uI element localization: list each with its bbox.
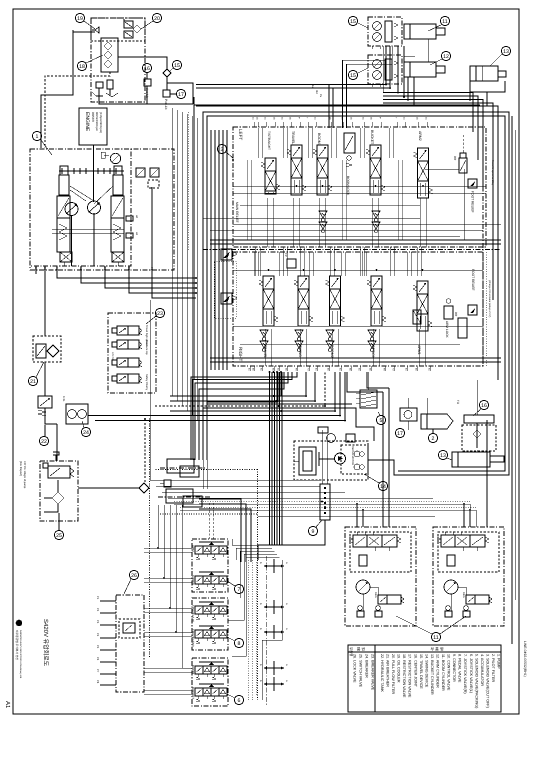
- RIGHT bank box: [233, 252, 483, 366]
- wire tight center bundle: [269, 372, 271, 545]
- svg-text:25. SWITCH VALVE: 25. SWITCH VALVE: [359, 654, 363, 688]
- inter-bank horizontal bundle: [203, 217, 420, 219]
- solenoid valve 2 pressure up: [117, 340, 128, 349]
- svg-text:SWING MOTOR: SWING MOTOR: [351, 446, 354, 465]
- circle label 03: [217, 144, 226, 153]
- rcv BOOM: [195, 666, 203, 674]
- svg-text:16: 16: [144, 66, 150, 72]
- wire motor B drops: [385, 84, 387, 87]
- svg-text:P3: P3: [150, 267, 153, 271]
- long feed line to right assembly: [258, 515, 435, 517]
- foot relief upper: [468, 179, 477, 188]
- circle label 24: [81, 427, 90, 436]
- svg-text:P5: P5: [96, 645, 99, 649]
- svg-text:2: 2: [432, 436, 435, 442]
- svg-text:S420V 유압회로도: S420V 유압회로도: [42, 619, 49, 667]
- pilot gear pump: [110, 153, 120, 163]
- svg-text:18: 18: [79, 64, 85, 70]
- pilot return dotted lines: [247, 560, 249, 700]
- svg-text:Safety Priority: Safety Priority: [145, 374, 148, 391]
- svg-text:REG: REG: [374, 592, 377, 598]
- circle label 17b: [395, 428, 404, 437]
- svg-text:A1: A1: [4, 701, 11, 709]
- wire strip connections: [321, 430, 323, 484]
- pump port stubs: [35, 266, 37, 274]
- wire pump to valve left ports: [196, 130, 211, 278]
- svg-text:Pressure Up: Pressure Up: [145, 340, 148, 355]
- svg-text:5: 5: [380, 418, 383, 424]
- svg-text:B1: B1: [103, 267, 106, 271]
- svg-text:86kW/1900rpm: 86kW/1900rpm: [95, 112, 99, 132]
- port box 16 Acc-Lb: [144, 79, 151, 86]
- circle label 06: [234, 695, 243, 704]
- left bank workport verticals: [267, 198, 269, 247]
- svg-text:A1: A1: [55, 267, 58, 271]
- port box 17 Port-Lb: [163, 90, 170, 97]
- svg-text:품 번: 품 번: [357, 647, 366, 652]
- svg-text:a1: a1: [135, 232, 139, 236]
- svg-text:P6: P6: [96, 657, 99, 661]
- svg-text:Pu: Pu: [319, 94, 322, 98]
- coupler A stub: [164, 480, 171, 487]
- svg-text:ARM: ARM: [191, 545, 195, 552]
- svg-text:BOOM1: BOOM1: [317, 133, 321, 146]
- circle label 20: [152, 13, 161, 22]
- circle label 15: [172, 60, 181, 69]
- svg-text:3. SOLENOID VALVE(CUT OFF): 3. SOLENOID VALVE(CUT OFF): [485, 654, 489, 708]
- swing motor port bar: [318, 452, 320, 466]
- svg-text:8: 8: [238, 641, 241, 647]
- circle label 05: [376, 415, 385, 424]
- drain components under valve: [96, 82, 103, 88]
- svg-text:24. BREAKER: 24. BREAKER: [365, 654, 369, 678]
- right bank relief pairs: [260, 330, 268, 337]
- dotted hose boundary: [149, 419, 151, 659]
- svg-text:13. BUCKET CYLINDER: 13. BUCKET CYLINDER: [430, 654, 434, 695]
- svg-text:22. HYDRAULIC TANK: 22. HYDRAULIC TANK: [380, 654, 384, 693]
- svg-text:C/P Pi1 10kg/c of pump: C/P Pi1 10kg/c of pump: [23, 461, 26, 489]
- junction to cluster links: [144, 547, 192, 549]
- svg-text:BUCKET: BUCKET: [370, 130, 374, 145]
- supply verticals in valve left margin: [210, 130, 212, 370]
- svg-text:23: 23: [157, 311, 163, 317]
- svg-text:SWING: SWING: [191, 575, 195, 586]
- wire left column verticals: [44, 270, 46, 336]
- svg-text:P7: P7: [96, 669, 99, 673]
- pump drive shaft: [59, 170, 124, 172]
- svg-text:4. ACCUMULATOR: 4. ACCUMULATOR: [480, 654, 484, 686]
- svg-text:6: 6: [238, 698, 241, 704]
- circle label 14: [438, 450, 447, 459]
- junction box port stubs: [100, 600, 116, 602]
- main pump assembly box: [30, 149, 131, 266]
- svg-text:Md: Md: [315, 90, 318, 94]
- coupler to cluster verticals: [158, 505, 192, 548]
- top feed line: [194, 104, 480, 106]
- solenoid valve V2: [124, 31, 133, 38]
- swing valve box: [341, 445, 368, 474]
- pump outlet lines: [57, 266, 196, 278]
- wire turning joint links: [476, 380, 478, 415]
- circle label 19: [75, 13, 84, 22]
- lower bank internal verticals: [253, 252, 255, 276]
- svg-text:11. BOOM CYLINDER: 11. BOOM CYLINDER: [441, 654, 445, 691]
- svg-text:FP: FP: [284, 253, 288, 257]
- solenoid valve V1: [124, 21, 133, 28]
- boom lock valve: [344, 133, 355, 153]
- right edge long verticals: [511, 116, 513, 644]
- svg-text:P3: P3: [96, 620, 99, 624]
- joystick valve left cluster: [192, 539, 228, 592]
- circle label 02: [428, 433, 437, 442]
- case drain port boxes: [126, 216, 133, 221]
- check diamond b: [104, 51, 112, 59]
- rcv ARM: [195, 546, 203, 554]
- svg-text:19. OIL COOLER: 19. OIL COOLER: [397, 654, 401, 683]
- svg-text:7. JOYSTICK VALVE(R): 7. JOYSTICK VALVE(R): [463, 654, 467, 694]
- spool OPTION: [371, 276, 382, 289]
- svg-text:P1: P1: [96, 596, 99, 600]
- wire swing group links: [258, 421, 294, 451]
- pump system outer box: [30, 149, 174, 270]
- svg-text:15. TRAVEL DEVICE: 15. TRAVEL DEVICE: [419, 654, 423, 689]
- circle label 07: [234, 584, 243, 593]
- svg-text:T/J: T/J: [456, 400, 460, 405]
- main relief valve symbol upper: [221, 249, 232, 260]
- svg-text:21. AIR BREATHER: 21. AIR BREATHER: [386, 654, 390, 687]
- solenoid valve 1 travel high speed: [117, 326, 128, 335]
- circle label 01: [32, 131, 41, 140]
- svg-text:25: 25: [56, 533, 62, 539]
- upper bank internal verticals: [257, 128, 259, 158]
- left bank port ticks: [253, 122, 255, 127]
- wire valve top pilot drops: [328, 85, 330, 129]
- wire check stack links: [367, 372, 369, 390]
- boom safety assembly right: [433, 527, 504, 626]
- svg-text:17. RESTRICTION VALVE: 17. RESTRICTION VALVE: [408, 654, 412, 698]
- svg-text:부품명: 부품명: [349, 647, 353, 656]
- wire assemblies top drops: [382, 392, 384, 527]
- right bank inner verticals: [249, 366, 251, 371]
- circle label 13: [501, 46, 510, 55]
- wire solenoid H bundle: [170, 372, 306, 396]
- long work verticals upper: [246, 160, 248, 240]
- wire coupler right solid bundle: [199, 499, 241, 562]
- solenoid valve block box: [108, 313, 156, 393]
- svg-text:5. SOLENOID VALVE(PACKING): 5. SOLENOID VALVE(PACKING): [474, 654, 478, 708]
- main relief valve symbol lower: [221, 293, 232, 304]
- right bank workport verticals: [265, 329, 267, 366]
- regulator crossover lines: [52, 228, 124, 230]
- turning joint: [464, 415, 494, 423]
- rcv TRAVEL-RH: [195, 630, 203, 638]
- svg-text:C/V Pi1: C/V Pi1: [111, 352, 114, 361]
- circle label 22: [39, 436, 48, 445]
- svg-text:1: 1: [36, 134, 39, 140]
- junction diamond: [139, 483, 149, 493]
- svg-text:T/STRAIGHT: T/STRAIGHT: [267, 131, 271, 150]
- circle label 23: [155, 308, 164, 317]
- circle label 16: [142, 63, 151, 72]
- svg-text:24: 24: [83, 430, 89, 436]
- pilot drain line left: [193, 97, 195, 380]
- relief dotted enclosure: [214, 261, 236, 318]
- svg-text:16: 16: [481, 403, 487, 409]
- travel motor A housing: [404, 24, 436, 39]
- relief valve pair: [136, 168, 145, 177]
- svg-text:P2: P2: [96, 608, 99, 612]
- quick coupler B: [166, 489, 193, 503]
- FP pump symbol: [287, 259, 296, 268]
- svg-text:1. PUMP: 1. PUMP: [497, 654, 501, 669]
- pilot shut-off valve group box: [91, 18, 145, 102]
- svg-text:2. PILOT FILTER: 2. PILOT FILTER: [491, 654, 495, 682]
- center joint cylinder: [452, 452, 490, 467]
- svg-text:TRAVEL: TRAVEL: [291, 131, 295, 144]
- lock valve inside junction box: [119, 619, 140, 638]
- svg-text:DAEWOO HEAVY INDUSTRIES & Mach: DAEWOO HEAVY INDUSTRIES & Machinery Ltd.: [19, 630, 22, 679]
- svg-text:15: 15: [350, 19, 356, 25]
- svg-text:3: 3: [221, 147, 224, 153]
- arm1 compensator: [413, 310, 421, 324]
- solenoid valve 4 safety priority: [117, 374, 128, 383]
- main pump P2: [88, 201, 101, 214]
- svg-text:LEFT: LEFT: [238, 129, 243, 140]
- svg-text:A2: A2: [79, 267, 82, 271]
- left bank gallery lines: [233, 185, 486, 187]
- svg-text:(For Export): (For Export): [19, 461, 23, 476]
- rcv BUCKET: [195, 688, 203, 696]
- connector strip 09: [320, 484, 330, 520]
- right bank gallery lines: [233, 269, 483, 271]
- boom1 relief pair: [319, 211, 327, 218]
- svg-text:BOOM: BOOM: [191, 665, 195, 675]
- check diamond a: [104, 42, 112, 50]
- DR valve bottom: [458, 318, 467, 338]
- svg-text:P4: P4: [96, 633, 99, 637]
- circle label 08: [234, 638, 243, 647]
- svg-text:TRAVEL(LH): TRAVEL(LH): [191, 605, 195, 622]
- rcv SWING: [195, 576, 203, 584]
- svg-text:P8: P8: [96, 680, 99, 684]
- svg-text:6. JOYSTICK VALVE(L): 6. JOYSTICK VALVE(L): [469, 654, 473, 693]
- circle label 11: [441, 51, 450, 60]
- spool TRAVEL-R: [263, 276, 274, 289]
- wire pump bundle verticals down: [171, 108, 173, 396]
- svg-text:9. CONNECTOR: 9. CONNECTOR: [452, 654, 456, 682]
- circle label 10: [348, 70, 357, 79]
- svg-text:18. RESTRICTION VALVE: 18. RESTRICTION VALVE: [402, 654, 406, 698]
- travel motor B: [368, 55, 402, 84]
- check valve diamond D1: [133, 25, 141, 33]
- LEFT bank box: [233, 127, 486, 247]
- svg-text:MAIN RELIEF: MAIN RELIEF: [235, 202, 239, 223]
- svg-text:11: 11: [442, 19, 447, 25]
- svg-text:16. CENTER JOINT: 16. CENTER JOINT: [413, 654, 417, 688]
- circle label 25: [54, 530, 63, 539]
- svg-text:11: 11: [433, 635, 438, 641]
- DR valve right: [460, 153, 466, 158]
- quick coupler A: [167, 459, 194, 473]
- junction dots: [195, 277, 197, 279]
- svg-text:REG: REG: [462, 592, 465, 598]
- circle label 09: [348, 16, 357, 25]
- wire diamond riser: [144, 419, 146, 483]
- svg-text:20. FULL FLOW FILTER: 20. FULL FLOW FILTER: [391, 654, 395, 694]
- travel motor B housing: [404, 62, 436, 77]
- svg-text:ARM LOCK: ARM LOCK: [445, 321, 449, 339]
- wire center H bundle: [150, 479, 320, 481]
- legend table: [348, 645, 501, 712]
- check valve diamond 15: [163, 69, 171, 77]
- svg-text:DB58TI: DB58TI: [91, 112, 95, 122]
- accumulator pair: [66, 404, 88, 424]
- svg-text:Dr: Dr: [34, 267, 37, 270]
- svg-text:20: 20: [154, 16, 160, 22]
- wire top horizontal bundle: [196, 84, 386, 86]
- pilot line filter: [421, 414, 453, 429]
- inter-bank crossing verticals: [254, 247, 256, 276]
- dozer cylinder: [470, 66, 498, 81]
- spool SWING: [298, 276, 309, 289]
- svg-text:Port-Lb: Port-Lb: [164, 99, 168, 110]
- svg-text:13: 13: [503, 49, 509, 55]
- spool BOOM2: [330, 276, 341, 289]
- svg-text:13: 13: [440, 453, 446, 459]
- accumulator small: [400, 408, 417, 421]
- port cross symbols: [264, 565, 284, 567]
- travel pedal cluster: [192, 598, 228, 650]
- svg-text:17: 17: [178, 92, 184, 98]
- wire group to pump box: [45, 72, 110, 148]
- svg-text:부 품 명: 부 품 명: [430, 647, 444, 652]
- svg-text:0.3L: 0.3L: [62, 396, 66, 402]
- swing brake cylinder: [299, 447, 316, 475]
- wire dozer cylinder drops: [469, 92, 471, 101]
- circle label 09b: [308, 526, 317, 535]
- svg-text:Travel hi-speed at 35kg: Travel hi-speed at 35kg: [491, 160, 494, 186]
- svg-text:9: 9: [312, 529, 315, 535]
- oil cooler motor small: [318, 427, 328, 433]
- pilot junction box 26: [116, 595, 144, 692]
- engine shaft: [93, 145, 95, 202]
- svg-text:ARM2: ARM2: [418, 131, 422, 141]
- pump internal drops: [71, 215, 73, 266]
- check valve manifold 05: [360, 390, 377, 408]
- gauge symbol: [95, 27, 99, 33]
- svg-text:RIGHT: RIGHT: [238, 347, 243, 361]
- svg-text:TRAVEL(RH): TRAVEL(RH): [191, 629, 195, 647]
- svg-text:B2: B2: [127, 267, 130, 271]
- swing motor: [335, 453, 346, 464]
- dash-dot hose line bottom: [265, 556, 267, 706]
- boom safety assembly left: [345, 527, 416, 626]
- wire valve bottom left sweep: [191, 372, 297, 460]
- circle label 26: [129, 570, 138, 579]
- circle label 12: [440, 16, 449, 25]
- svg-text:대우중공업 주식회사 인천: 대우중공업 주식회사 인천: [15, 630, 19, 660]
- svg-text:B3: B3: [43, 267, 46, 271]
- svg-text:26: 26: [131, 573, 137, 579]
- svg-text:12: 12: [443, 54, 449, 60]
- main control valve outer box: [203, 112, 509, 475]
- circle label 15b: [479, 400, 488, 409]
- regulator left stack: [60, 166, 68, 175]
- pilot valve body: [101, 38, 118, 72]
- svg-text:10. CONTROL VALVE: 10. CONTROL VALVE: [447, 654, 451, 691]
- svg-text:26. LOCK VALVE: 26. LOCK VALVE: [353, 654, 357, 683]
- bucket relief pair: [372, 211, 380, 218]
- svg-text:14. SWING DEVICE: 14. SWING DEVICE: [424, 654, 428, 688]
- circle label 18: [77, 61, 86, 70]
- spool ARM1: [417, 281, 428, 294]
- circle label 12b: [431, 632, 440, 641]
- svg-text:22: 22: [41, 439, 47, 445]
- return filter unit: [33, 336, 61, 362]
- company logo: [16, 620, 23, 627]
- check diamond c: [104, 60, 112, 68]
- svg-text:LINE-0492-00532(RH1): LINE-0492-00532(RH1): [523, 641, 527, 677]
- rcv TRAVEL-LH: [195, 606, 203, 614]
- travel motor A: [368, 17, 402, 46]
- pilot block valve 25 group: [40, 461, 78, 521]
- wire coupler left verticals: [194, 460, 196, 462]
- svg-text:17: 17: [397, 431, 403, 437]
- dash-dot pilot line vertical right: [482, 130, 484, 366]
- svg-text:FOOT RELIEF: FOOT RELIEF: [471, 191, 475, 213]
- svg-text:(Charge CO at motor pickup of: (Charge CO at motor pickup of CV): [488, 280, 491, 318]
- wire left drop from group: [41, 30, 73, 148]
- svg-text:23. BREAKER VALVE: 23. BREAKER VALVE: [371, 654, 375, 691]
- solenoid valve 3: [117, 358, 128, 367]
- motor crossover lines: [404, 46, 415, 56]
- divider dash-dot: [203, 249, 501, 251]
- check valve in 25 group: [52, 492, 64, 504]
- swing motor group: [294, 441, 368, 480]
- svg-text:FOOT RELIEF: FOOT RELIEF: [471, 269, 475, 291]
- engine box: [79, 108, 107, 145]
- relief valve 22: [38, 396, 52, 408]
- regulator right stack: [114, 166, 122, 175]
- svg-text:ENGINE: ENGINE: [84, 112, 90, 132]
- wire from valve to port 17: [118, 57, 167, 69]
- joystick valve right cluster: [192, 658, 228, 706]
- circle label 17: [176, 89, 185, 98]
- wire right riser: [167, 83, 193, 104]
- dotted line left of valve: [187, 112, 189, 250]
- wire motor drops: [385, 46, 387, 85]
- svg-text:15: 15: [350, 73, 356, 79]
- svg-text:15: 15: [174, 63, 180, 69]
- svg-text:ARM1: ARM1: [417, 345, 421, 355]
- svg-text:21: 21: [30, 379, 36, 385]
- main pump P1: [65, 203, 78, 216]
- cluster top dashed feeds: [208, 503, 210, 539]
- svg-text:BUCKET: BUCKET: [191, 687, 195, 699]
- circle label 04: [378, 481, 387, 490]
- svg-text:12. ARM CYLINDER: 12. ARM CYLINDER: [435, 654, 439, 688]
- svg-text:a2: a2: [135, 215, 139, 219]
- arm lock valve: [444, 306, 453, 319]
- svg-text:8. PEDAL VALVE: 8. PEDAL VALVE: [458, 654, 462, 683]
- extra top drops from motor B: [407, 77, 409, 96]
- svg-text:(116ps/1900rpm): (116ps/1900rpm): [99, 112, 103, 133]
- svg-text:19: 19: [77, 16, 83, 22]
- circle label 21: [28, 376, 37, 385]
